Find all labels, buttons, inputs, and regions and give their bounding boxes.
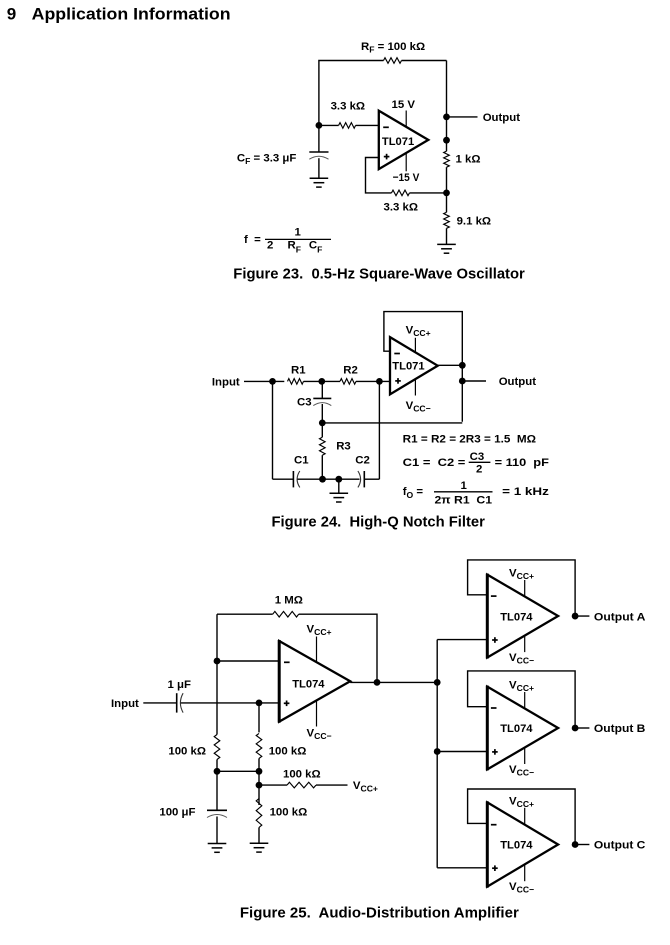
- pin minus op-amp B: [491, 707, 497, 709]
- wire 1 Mohm feedback top left: [217, 613, 273, 615]
- svg-text:Figure 25. Audio-Distribution: Figure 25. Audio-Distribution Amplifier: [240, 905, 519, 921]
- op-amp B TL074: [487, 687, 558, 770]
- wire input fig24: [244, 380, 284, 382]
- svg-text:VCC−: VCC−: [509, 764, 534, 778]
- svg-text:2: 2: [267, 240, 273, 252]
- wire C3 bottom: [321, 404, 323, 423]
- svg-text:VCC+: VCC+: [353, 780, 378, 794]
- svg-text:2π R1 C1: 2π R1 C1: [435, 495, 493, 507]
- wire input to op-amp: [356, 124, 379, 126]
- wire inverting input fig25: [217, 660, 279, 662]
- wire feedback box fig24: [384, 312, 462, 422]
- supply VCC- stub U3: [316, 700, 318, 727]
- wire bottom left: [273, 478, 294, 480]
- capacitor C1: [293, 471, 299, 487]
- svg-text:TL074: TL074: [500, 611, 533, 623]
- supply VCC+ stub op-amp B: [524, 692, 526, 709]
- svg-text:VCC−: VCC−: [509, 652, 534, 666]
- svg-text:100 μF: 100 μF: [159, 807, 195, 819]
- supply VCC- stub op-amp A: [524, 636, 526, 653]
- svg-text:TL071: TL071: [382, 136, 414, 148]
- svg-text:C3: C3: [297, 397, 312, 409]
- wire C3 node to feedback box: [322, 422, 462, 424]
- node input junction fig24: [269, 378, 276, 385]
- ground left fig25: [208, 844, 227, 853]
- svg-text:2: 2: [476, 464, 482, 476]
- resistor 100k right bias: [256, 733, 262, 758]
- node bias left: [214, 768, 221, 775]
- node noninverting junction fig24: [376, 378, 383, 385]
- node bus to opamp B: [434, 748, 441, 755]
- ground fig24: [330, 493, 349, 502]
- svg-text:R1: R1: [291, 365, 306, 377]
- pin plus U3: [284, 701, 290, 707]
- ground divider: [437, 244, 456, 253]
- wire plus input op-amp B: [437, 751, 487, 753]
- svg-text:TL071: TL071: [392, 360, 424, 372]
- wire 100uF top: [216, 771, 218, 810]
- node vcc feed junction: [256, 782, 263, 789]
- supply VCC+ stub U3: [316, 637, 318, 663]
- svg-text:Input: Input: [212, 376, 240, 388]
- svg-text:9: 9: [7, 5, 16, 24]
- supply 15 V stub: [405, 111, 407, 128]
- svg-text:Application Information: Application Information: [32, 5, 231, 24]
- wire R3 bottom stub: [321, 455, 323, 479]
- capacitor CF: [309, 152, 328, 159]
- node divider junction: [443, 190, 450, 197]
- node output tap fig24: [459, 378, 466, 385]
- svg-text:TL074: TL074: [500, 723, 533, 735]
- wire distribution bus: [436, 640, 438, 868]
- op-amp A TL074: [487, 575, 558, 658]
- wire output op-amp A: [575, 615, 589, 617]
- svg-text:3.3 kΩ: 3.3 kΩ: [384, 202, 418, 214]
- wire to Output fig24: [462, 380, 486, 382]
- wire to Output label: [447, 116, 478, 118]
- formula C1 = C2 = C3/2: [403, 451, 549, 476]
- svg-text:R2: R2: [343, 365, 358, 377]
- svg-text:Input: Input: [111, 698, 139, 710]
- supply VCC+ stub op-amp A: [524, 580, 526, 597]
- node bias right: [256, 768, 263, 775]
- svg-text:VCC+: VCC+: [509, 568, 534, 582]
- wire R3 top stub: [321, 423, 323, 437]
- wire input left: [319, 124, 339, 126]
- node feedback output junction: [374, 679, 381, 686]
- resistor 1 k: [444, 151, 450, 167]
- wire main output to bus: [350, 681, 437, 683]
- pin minus U3: [284, 661, 290, 663]
- svg-text:RF = 100 kΩ: RF = 100 kΩ: [361, 41, 425, 55]
- svg-text:R1 = R2 = 2R3 = 1.5 MΩ: R1 = R2 = 2R3 = 1.5 MΩ: [403, 434, 536, 446]
- resistor 100k vcc feed: [287, 782, 316, 788]
- node inverting junction fig25: [214, 658, 221, 665]
- resistor 3.3 k input: [339, 123, 356, 129]
- svg-text:R3: R3: [336, 441, 351, 453]
- pin minus op-amp A: [491, 595, 497, 597]
- svg-text:Output A: Output A: [594, 611, 646, 623]
- pin plus op-amp C: [492, 865, 498, 871]
- pin minus U2: [394, 353, 400, 355]
- wire 100uF to ground: [216, 817, 218, 844]
- svg-text:9.1 kΩ: 9.1 kΩ: [457, 216, 491, 228]
- wire feedback top right: [402, 60, 447, 62]
- node ground junction fig24: [335, 476, 342, 483]
- node C3 R3 junction: [319, 420, 326, 427]
- wire feedback box op-amp C: [468, 789, 575, 845]
- ground CF: [310, 178, 329, 187]
- wire 1 Mohm feedback top right: [299, 614, 377, 682]
- wire C3 top: [321, 381, 323, 398]
- svg-text:Figure 23. 0.5-Hz Square-Wave: Figure 23. 0.5-Hz Square-Wave Oscillator: [233, 266, 525, 282]
- resistor RF: [384, 58, 402, 64]
- resistor 9.1 k: [444, 212, 450, 228]
- op-amp U2 TL071: [390, 337, 438, 394]
- svg-text:VCC+: VCC+: [307, 624, 332, 638]
- svg-text:1 MΩ: 1 MΩ: [275, 595, 303, 607]
- svg-text:f =: f =: [244, 234, 261, 246]
- svg-text:100 kΩ: 100 kΩ: [168, 746, 206, 758]
- pin plus op-amp A: [492, 637, 498, 643]
- svg-text:C1: C1: [294, 455, 309, 467]
- svg-text:TL074: TL074: [292, 679, 325, 691]
- svg-text:−15 V: −15 V: [393, 172, 420, 184]
- capacitor C3: [313, 398, 331, 405]
- svg-text:Output C: Output C: [594, 840, 646, 852]
- svg-text:VCC−: VCC−: [307, 727, 332, 741]
- resistor R3: [320, 437, 326, 455]
- wire plus input down: [258, 703, 260, 733]
- wire feedback to output node: [410, 192, 447, 194]
- node output op-amp A: [572, 613, 579, 620]
- resistor 3.3 k feedback: [392, 190, 410, 196]
- wire output op-amp B: [575, 727, 589, 729]
- svg-text:fO =: fO =: [403, 486, 424, 500]
- pin plus U2: [395, 378, 401, 384]
- node output feedback junction: [459, 362, 466, 369]
- wire vcc feed left: [259, 784, 287, 786]
- wire feedback box op-amp A: [468, 560, 575, 616]
- svg-text:RF: RF: [288, 240, 301, 255]
- wire right branch vertical: [378, 381, 380, 479]
- svg-text:1 μF: 1 μF: [168, 679, 191, 691]
- resistor 100k left bias: [214, 735, 220, 760]
- svg-text:C3: C3: [470, 451, 485, 463]
- svg-text:VCC+: VCC+: [509, 680, 534, 694]
- pin minus U1: [383, 126, 389, 128]
- svg-text:= 110 pF: = 110 pF: [495, 457, 549, 469]
- wire inverting bias vertical: [216, 614, 218, 734]
- wire noninverting feedback: [366, 158, 392, 193]
- svg-text:VCC+: VCC+: [509, 795, 534, 809]
- ground right fig25: [250, 843, 269, 852]
- wire op-amp output fig24: [438, 364, 463, 366]
- supply VCC- stub op-amp C: [524, 865, 526, 882]
- svg-text:VCC+: VCC+: [406, 324, 431, 338]
- formula fo = 1 kHz: [403, 480, 550, 506]
- wire right bias to node: [258, 758, 260, 805]
- node op-amp output: [443, 137, 450, 144]
- wire feedback box op-amp B: [468, 671, 575, 728]
- svg-text:100 kΩ: 100 kΩ: [269, 746, 307, 758]
- svg-text:CF = 3.3 μF: CF = 3.3 μF: [237, 153, 296, 167]
- wire CF top: [318, 125, 320, 152]
- svg-text:1 kΩ: 1 kΩ: [456, 154, 481, 166]
- capacitor 1 uF: [177, 693, 183, 712]
- ground stub fig24: [338, 479, 340, 493]
- node bus main junction: [434, 679, 441, 686]
- svg-text:CF: CF: [309, 240, 322, 255]
- svg-text:1: 1: [461, 480, 468, 492]
- wire coupling cap to plus input: [181, 702, 280, 704]
- resistor 1 Mohm: [273, 611, 299, 617]
- svg-text:VCC−: VCC−: [509, 881, 534, 895]
- node R3 bottom junction: [319, 476, 326, 483]
- wire input to coupling cap: [143, 702, 176, 704]
- wire R2 to op-amp: [356, 380, 390, 382]
- node output op-amp B: [572, 725, 579, 732]
- node noninverting junction fig25: [256, 700, 263, 707]
- op-amp U1 TL071: [379, 111, 429, 169]
- svg-text:C2: C2: [355, 455, 370, 467]
- supply VCC+ stub op-amp C: [524, 808, 526, 825]
- svg-text:C1 = C2 =: C1 = C2 =: [403, 457, 466, 469]
- resistor R1: [288, 379, 304, 385]
- supply VCC- stub op-amp B: [524, 747, 526, 764]
- svg-text:15 V: 15 V: [392, 99, 416, 111]
- resistor 100k lower: [256, 799, 262, 828]
- wire left branch vertical: [272, 381, 274, 479]
- svg-text:1: 1: [295, 227, 302, 239]
- wire plus input op-amp C: [437, 867, 487, 869]
- capacitor C2: [358, 471, 364, 487]
- node output tap: [443, 114, 450, 121]
- svg-text:100 kΩ: 100 kΩ: [270, 807, 308, 819]
- wire divider bottom: [446, 228, 448, 244]
- wire C2 to right: [364, 478, 379, 480]
- wire plus input op-amp A: [437, 639, 487, 641]
- pin plus U1: [384, 154, 390, 160]
- resistor R2: [340, 379, 356, 385]
- svg-text:= 1 kHz: = 1 kHz: [502, 486, 549, 498]
- wire bias crossbar: [217, 770, 259, 772]
- svg-text:100 kΩ: 100 kΩ: [283, 769, 321, 781]
- op-amp U3 TL074 main: [279, 641, 350, 722]
- wire output right vertical: [446, 61, 448, 152]
- node inverting input junction: [316, 122, 323, 129]
- wire center to C2: [339, 478, 360, 480]
- wire left bias to node: [216, 760, 218, 772]
- svg-text:Output: Output: [483, 112, 521, 124]
- formula f = 1 / (2 RF CF): [244, 227, 331, 255]
- svg-text:VCC−: VCC−: [406, 400, 431, 414]
- svg-text:3.3 kΩ: 3.3 kΩ: [331, 101, 365, 113]
- wire C1 to center: [298, 478, 339, 480]
- wire vcc feed right: [316, 784, 348, 786]
- capacitor 100 uF: [207, 810, 227, 817]
- supply VCC+ stub U2: [414, 338, 416, 352]
- op-amp C TL074: [487, 802, 558, 886]
- svg-text:TL074: TL074: [500, 840, 533, 852]
- wire feedback top: [319, 61, 384, 126]
- wire R1 to R2: [304, 380, 341, 382]
- svg-text:Output B: Output B: [594, 723, 646, 735]
- wire CF bottom: [318, 158, 320, 178]
- svg-text:Figure 24. High-Q Notch Filte: Figure 24. High-Q Notch Filter: [272, 515, 486, 531]
- supply -15 V stub: [405, 153, 407, 172]
- node output op-amp C: [572, 841, 579, 848]
- node R1 R2 junction: [318, 378, 325, 385]
- svg-text:Output: Output: [499, 376, 537, 388]
- pin plus op-amp B: [492, 749, 498, 755]
- wire divider middle: [446, 167, 448, 212]
- pin minus op-amp C: [491, 824, 497, 826]
- wire lower resistor to ground: [258, 828, 260, 844]
- wire output op-amp C: [575, 844, 589, 846]
- supply VCC- stub U2: [414, 379, 416, 396]
